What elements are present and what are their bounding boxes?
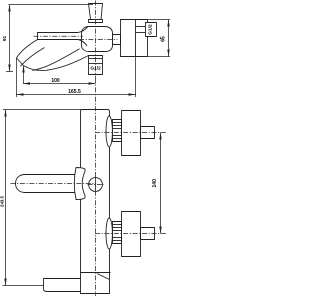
svg-text:100: 100 xyxy=(51,78,60,84)
svg-text:91: 91 xyxy=(2,36,8,42)
svg-text:165.5: 165.5 xyxy=(68,89,81,95)
svg-text:140: 140 xyxy=(152,179,158,188)
svg-text:65: 65 xyxy=(161,36,167,42)
svg-text:G1/2: G1/2 xyxy=(90,66,101,72)
svg-text:243.5: 243.5 xyxy=(0,195,4,207)
svg-text:G1/2: G1/2 xyxy=(147,24,153,35)
